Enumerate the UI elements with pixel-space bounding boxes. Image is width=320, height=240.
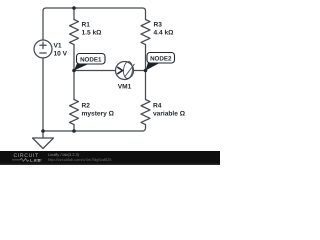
wire R4 bottom to bottom rail [74, 125, 146, 132]
resistor R2 [70, 100, 79, 125]
voltage source V1 body [34, 40, 52, 58]
svg-text:LAB: LAB [30, 158, 41, 163]
wire R1 bottom to NODE1 [73, 45, 75, 71]
svg-text:R4: R4 [153, 103, 162, 110]
svg-text:V1: V1 [54, 43, 62, 50]
ground [33, 138, 54, 149]
wire NODE1 down to R2 [73, 71, 75, 100]
svg-text:variable Ω: variable Ω [153, 111, 186, 118]
node NODE2 flag [147, 53, 175, 64]
voltmeter VM1 V glyph [117, 67, 122, 74]
resistor R4 [141, 100, 150, 125]
svg-text:R2: R2 [82, 103, 91, 110]
junction dot NODE2 [144, 69, 148, 73]
svg-text:10 V: 10 V [54, 51, 68, 58]
node NODE1 flag [77, 54, 106, 65]
junction dot NODE1 [72, 69, 76, 73]
wire bottom rail left [43, 130, 74, 132]
wire NODE1 to voltmeter [74, 70, 116, 72]
svg-text:4.4 kΩ: 4.4 kΩ [154, 30, 175, 37]
wire voltmeter to NODE2 [134, 70, 146, 72]
junction dot top rail R1 [72, 6, 76, 10]
CircuitLab logo wordmark [12, 153, 42, 163]
voltmeter VM1 body [116, 62, 134, 80]
wire ground stub [42, 131, 44, 138]
resistor R3 [141, 20, 150, 45]
voltage source V1 plus sign [40, 42, 46, 48]
svg-text:R3: R3 [154, 22, 163, 29]
wire R2 bottom lead [73, 125, 75, 132]
svg-text:1.5 kΩ: 1.5 kΩ [82, 30, 103, 37]
resistor R1 [70, 20, 79, 45]
junction dot bottom rail V1 [41, 129, 45, 133]
wire R1 top lead [73, 8, 75, 20]
wire R3 bottom to NODE2 [145, 45, 147, 71]
junction dot bottom rail R2 [72, 129, 76, 133]
wire top rail to R3 [74, 8, 146, 20]
voltmeter VM1 gauge [123, 61, 133, 79]
wire V1 bottom lead [42, 58, 44, 131]
svg-text:NODE1: NODE1 [80, 57, 102, 64]
svg-text:R1: R1 [82, 22, 91, 29]
footer watermark bar [0, 151, 220, 165]
svg-text:NODE2: NODE2 [150, 56, 172, 63]
svg-text:http://circuitlab.com/c/4m7ldg: http://circuitlab.com/c/4m7ldg5ad628 [48, 157, 111, 162]
voltage source V1 minus sign [40, 52, 46, 54]
footer credit text [48, 152, 111, 162]
node NODE1 flag tail [74, 64, 89, 71]
node NODE2 flag tail [146, 63, 161, 71]
wire NODE2 down to R4 [145, 71, 147, 100]
wire V1 top lead to top rail [43, 8, 74, 40]
svg-text:VM1: VM1 [118, 84, 132, 91]
svg-text:mystery Ω: mystery Ω [82, 111, 115, 118]
voltmeter VM1 needle [125, 64, 134, 76]
